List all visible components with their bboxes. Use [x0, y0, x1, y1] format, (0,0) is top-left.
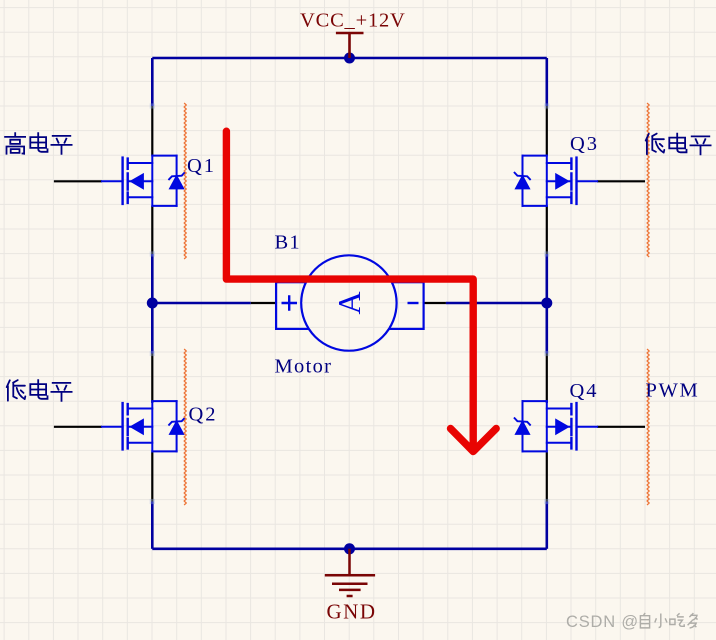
- wire mid-left to motor +: [152, 302, 251, 305]
- pin Q2 drain: [151, 354, 153, 404]
- pin Q3 gate: [597, 180, 645, 182]
- transistor Q3 (high-side right): [515, 156, 598, 206]
- junction node mid-right: [541, 298, 552, 309]
- pin Q4 gate: [597, 426, 645, 428]
- svg-text:Q1: Q1: [187, 155, 216, 177]
- pin Q4 drain: [546, 354, 548, 404]
- net label 高电平 (high level): [5, 133, 72, 154]
- dangling-net zigzag marker Q1 gate: [184, 103, 186, 259]
- pin Q3 source: [546, 206, 548, 254]
- pin Q2 gate: [54, 426, 102, 428]
- svg-text:Motor: Motor: [275, 356, 333, 378]
- dangling-net zigzag marker Q2 gate: [184, 349, 186, 505]
- svg-text:Q2: Q2: [189, 404, 218, 426]
- junction node mid-left: [147, 298, 158, 309]
- pin endpoint markers (pale blue): [150, 103, 550, 504]
- pin Q2 source: [151, 452, 153, 501]
- transistor Q4 (low-side right): [515, 401, 598, 451]
- svg-text:GND: GND: [327, 600, 377, 624]
- motor minus marking: [408, 302, 419, 304]
- junction GND node: [344, 543, 355, 554]
- wire left vertical (Q1 drain side): [151, 58, 154, 106]
- current path annotation arrow: [226, 131, 496, 451]
- svg-text:VCC_+12V: VCC_+12V: [300, 10, 406, 32]
- motor plus marking: [282, 295, 298, 311]
- svg-text:CSDN @: CSDN @: [566, 613, 639, 631]
- power VCC +12V bar symbol: [336, 33, 364, 58]
- pin Q3 drain: [546, 106, 548, 156]
- wire motor - to mid-right: [446, 302, 547, 305]
- svg-text:PWM: PWM: [646, 380, 700, 402]
- svg-text:A: A: [331, 291, 367, 314]
- svg-text:B1: B1: [275, 232, 301, 254]
- pin Q1 gate: [54, 180, 102, 182]
- dangling-net zigzag marker Q3 gate: [647, 103, 649, 257]
- motor B1 body rectangle: [276, 282, 424, 329]
- svg-text:Q4: Q4: [570, 380, 599, 402]
- junction VCC node: [344, 53, 355, 64]
- wire left vertical (Q2 source to bottom rail): [151, 502, 154, 549]
- wire bottom rail: [152, 547, 547, 550]
- dangling-net zigzag marker Q4 gate: [647, 349, 649, 505]
- wire top rail: [152, 57, 547, 60]
- pin Q4 source: [546, 452, 548, 501]
- pin motor minus: [424, 302, 446, 304]
- pin Q1 source: [151, 206, 153, 254]
- pin motor plus: [251, 302, 276, 304]
- motor B1 circle: [301, 255, 396, 350]
- ground symbol: [325, 549, 375, 596]
- wire right vertical (Q3 source to mid node): [545, 254, 548, 354]
- wire right vertical (Q3 drain side): [545, 58, 548, 106]
- transistor Q1 (high-side left P-MOS with body diode): [102, 156, 185, 206]
- net label 低电平 (low level, left): [7, 380, 72, 401]
- wire left vertical (Q1 source to mid node): [151, 254, 154, 354]
- pin Q1 drain: [151, 106, 153, 156]
- net label 低电平 (low level, right): [646, 134, 711, 155]
- transistor Q2 (low-side left): [102, 401, 185, 451]
- wire right vertical (Q4 source to bottom rail): [545, 502, 548, 549]
- svg-text:Q3: Q3: [570, 133, 599, 155]
